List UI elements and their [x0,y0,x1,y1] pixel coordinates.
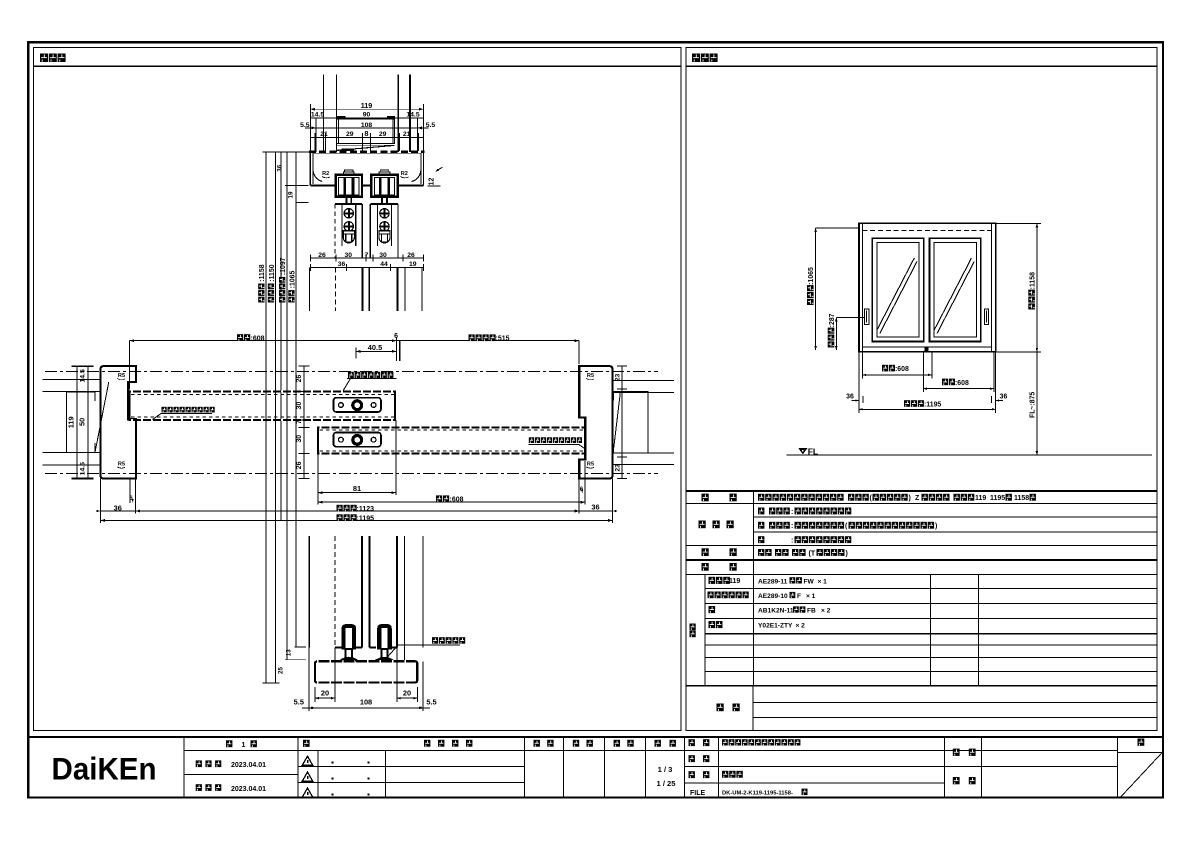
dim text 90 [363,112,371,119]
dim text 19 [409,261,417,268]
dim text 108 bottom [360,698,372,707]
svg-text::: : [791,509,793,516]
dim text 30 b [379,252,387,259]
rotated text 23 top [615,374,622,382]
DAIKEN logo [52,751,157,787]
label teiki tenken (underlined) [343,372,397,391]
dim wakugai-daka 1158 elev [996,223,1041,351]
svg-text:R5: R5 [118,373,125,379]
hanger roller right [371,170,397,203]
dim text 108 [361,122,373,129]
elev ext verticals [859,352,996,413]
guide pin label leader [387,645,460,658]
svg-text:5.5: 5.5 [426,698,436,707]
title FILE [690,790,705,797]
spec content katashiki [758,494,1036,502]
dim text 20 right [403,688,411,697]
dim 108 line [305,126,429,129]
left panel header line [34,65,682,67]
svg-text:1: 1 [242,742,246,749]
title warn triangle 2 [302,772,312,781]
height tick 1097 top [285,184,308,186]
rotated text 23 bottom [615,464,622,472]
svg-text:30: 30 [379,252,387,259]
dim text wakunai 1123 [337,505,375,513]
dim 90 line [310,117,423,119]
right jamb profile [579,366,612,478]
svg-text:FW: FW [804,578,815,585]
left jamb profile [101,366,136,478]
spec row line d [686,544,1157,546]
svg-text:36: 36 [591,503,599,512]
left dim mid ticks [83,380,94,465]
svg-text::608: :608 [955,380,969,387]
spec label buhin [702,563,737,571]
dim text 14.5 right [406,112,419,119]
svg-text:19: 19 [288,191,295,198]
dim 40.5 [356,337,396,361]
spec row line b [754,516,1157,518]
track bottom flange mid [362,181,371,186]
spec label hinban rot [690,624,696,638]
title dai-1-han [226,740,257,749]
svg-text:119: 119 [729,578,740,585]
svg-text:14.5: 14.5 [80,462,87,475]
svg-text:× 1: × 1 [806,593,816,600]
dim 20 right [397,697,417,699]
parts val hikite [758,623,805,630]
dim text 21 a [320,131,328,138]
track under line [337,144,395,146]
svg-text:8: 8 [364,129,368,138]
title zumei [689,771,710,778]
rotated text 30 d [296,435,303,443]
dim text 8 [364,129,368,138]
svg-text:F: F [797,593,801,600]
title kenzu [573,740,593,747]
svg-text:36: 36 [114,503,122,512]
dim hikite-daka 287 [835,317,865,350]
svg-text:14.5: 14.5 [311,112,324,119]
dim text 36 left [114,503,122,512]
bottom rail inner marks [342,659,391,661]
svg-text:2023.04.01: 2023.04.01 [231,762,266,769]
dim chain ticks [315,133,419,151]
right sash handle [984,309,988,325]
parts label koteiwaku [709,577,741,585]
svg-text:26: 26 [296,461,303,469]
svg-text:20: 20 [403,688,411,697]
svg-text:19: 19 [409,261,417,268]
wall centerline top [45,371,658,373]
svg-text:Z: Z [915,495,920,502]
dim text 81 [353,484,361,493]
title kaitei-bi [196,784,266,793]
title history dots 2 [332,778,370,780]
dim 608 left elev [862,374,932,376]
top door handle plate [333,398,381,412]
label shomenzu (front view) [692,54,718,63]
svg-text::1065: :1065 [289,271,296,289]
door top right [370,204,398,258]
right jamb R5 bottom [586,461,594,468]
spec label katashiki [702,494,737,502]
svg-text:14.5: 14.5 [406,112,419,119]
title No label [303,740,310,747]
svg-text::608: :608 [450,497,464,504]
title sakusei [614,740,634,747]
svg-text:26: 26 [296,375,303,383]
height top tick [263,151,310,153]
svg-text:36: 36 [846,394,854,401]
window bottom inner line [862,346,991,348]
svg-text:36: 36 [277,164,284,171]
dim text wakugai-haba 1195 elev [904,400,941,408]
svg-text:36: 36 [1000,394,1008,401]
label guide pin [432,637,465,644]
title history rows [298,767,525,783]
dim 20 left [315,697,335,699]
spec col biko divider [752,686,754,731]
dim 608 right elev [923,387,994,389]
spec row line f [686,574,1157,576]
wall stud line left a [323,75,325,152]
door bottom left [335,647,362,649]
svg-text:40.5: 40.5 [368,343,382,352]
dim text 5.5 bottom left [294,698,304,707]
dim text 36 right [591,503,599,512]
dim text 5.5 right [426,122,436,129]
wall stud line right b [409,75,411,152]
dim 108 bottom [302,707,430,710]
svg-text:7: 7 [365,252,369,259]
svg-text:(T: (T [809,550,816,557]
rotated text 14.5 top left [80,369,87,382]
FL line [786,454,1152,456]
spec content kanamono [758,549,848,557]
title kaitei rireki [424,740,472,747]
svg-text:× 2: × 2 [821,608,831,615]
spec col parts 1 [930,575,932,686]
title hinban [689,755,710,762]
rotated label wakugai-daka elev [1028,272,1036,310]
track bottom flange left [310,181,335,186]
svg-text:5.5: 5.5 [294,698,304,707]
dim text 26 b [407,252,415,259]
dim 119 line [310,104,423,152]
svg-text:7: 7 [296,420,303,424]
break diagonal [337,145,395,150]
svg-text:AB1K2N-11: AB1K2N-11 [758,608,794,615]
parts label rail set [708,592,749,599]
rotated text 26 c [296,375,303,383]
svg-text:AE289-10: AE289-10 [758,593,788,600]
svg-text:DaiKEn: DaiKEn [52,751,157,787]
right sash [930,238,981,341]
window top dashed track [862,229,991,231]
svg-text:44: 44 [380,261,388,268]
svg-text:36: 36 [338,261,346,268]
spec row line g [705,588,1157,590]
meeting stile marks [925,347,929,352]
rotated dim 19 top [288,191,295,198]
title warn triangle 1 [302,756,312,765]
title meisho [689,739,710,746]
dim chain 21-29-8-29-21 line [310,136,423,138]
svg-text:13: 13 [285,649,292,656]
left sash [872,238,923,341]
wall lines left [42,380,100,465]
dim text 14.5 left [311,112,324,119]
svg-text:12: 12 [429,178,436,186]
dim bar left [337,116,345,119]
title shonin [534,740,554,747]
title shukushaku [655,740,676,747]
rotated label wakunai-daka 1150 [268,264,276,302]
svg-text:): ) [935,523,937,530]
title page [1138,739,1145,746]
spec row line j [705,633,1157,635]
title warn triangle 3 [302,788,312,797]
svg-text:): ) [846,550,848,557]
dim text 36 t [338,261,346,268]
svg-text:23: 23 [615,374,622,382]
section break lines lower [309,536,423,661]
svg-text:FL: FL [808,446,819,456]
spec row line e thick [686,559,1157,561]
rotated text 119 left [67,416,76,428]
spec row line p [753,716,1157,718]
height ext line 1097 [286,152,288,660]
title page header line [1118,751,1163,753]
left jamb R5 bottom [117,461,125,468]
dim text wakugai 1195 [337,514,375,522]
dim FL 875 [1036,352,1039,455]
spec content glass [758,522,937,530]
title header line [184,750,1118,752]
height bottom tick 1158 [263,682,280,684]
dim shoji-daka 1065 [814,228,859,350]
svg-text:FB: FB [807,608,816,615]
svg-text::1195: :1195 [924,401,941,408]
dim text 44 [380,261,388,268]
dim chain 26-30-7-30-26 line [310,255,423,262]
svg-text:81: 81 [353,484,361,493]
track upper box [337,119,395,143]
height ext line 1150 [275,152,277,683]
parts label hikite [709,621,723,628]
dim text 26 a [318,252,326,259]
left panel border [34,48,682,731]
svg-text::1158: :1158 [259,264,266,281]
track right wall [421,152,423,186]
rotated text 30 c [296,402,303,410]
svg-text:119: 119 [361,101,373,110]
rotated text 26 d [296,461,303,469]
svg-text::1195: :1195 [357,516,375,523]
title zumei content [722,771,743,778]
svg-text:50: 50 [78,418,87,426]
title kenmei [953,749,976,756]
dim 1123 line [96,510,616,513]
dim 12 rotated [428,167,443,186]
dim text 36 right elev [996,394,1008,402]
top door plan [130,391,396,419]
bottom door handle plate [333,432,381,446]
spec row line i [705,618,1157,620]
C stud left diagonal [95,382,109,451]
spec row line l [705,657,1157,659]
rotated text 14.5 bottom left [80,462,87,475]
title scale 1/25 [657,779,677,788]
dim text 7 c [365,252,369,259]
dim bar right [387,116,395,119]
svg-text:21: 21 [403,131,411,138]
svg-text:30: 30 [345,252,353,259]
dim text 119 [361,101,373,110]
C stud right [614,391,649,453]
height ext line 1158 [265,152,267,683]
door top left [335,204,362,258]
height tick 1065 top [296,202,308,204]
hikite ref line [399,341,401,361]
spec content panel [758,508,851,516]
rotated label wakugai-daka 1158 [258,264,266,302]
svg-text::1123: :1123 [357,506,375,513]
dim text 5.5 bottom right [426,698,436,707]
rotated dim 25 bottom [278,667,285,674]
bottom door plan [318,427,585,453]
label hikido cap left [153,407,215,420]
plan ext verticals bottom [100,420,612,523]
break bar [342,149,355,152]
dim text yuko 515 [469,334,510,342]
title seitei-bi [196,760,266,769]
svg-text:FL~:875: FL~:875 [1030,392,1037,418]
svg-text::1150: :1150 [269,264,276,281]
dim tobira-haba 608 top [130,339,397,389]
spec row line o [753,702,1157,704]
svg-text:Y02E1-ZTY: Y02E1-ZTY [758,623,793,630]
dim text 608 right elev [942,379,969,387]
parts val tobira [758,606,831,614]
svg-text:119: 119 [67,416,76,428]
door bottom right [370,647,397,649]
svg-text:1 / 25: 1 / 25 [657,779,677,788]
svg-text:25: 25 [278,667,285,674]
spec label shiage [699,521,734,529]
track R2 label left [322,171,330,178]
title verticals [184,737,1118,798]
dim chain 36-44-19 line [310,264,423,271]
svg-text:× 1: × 1 [818,578,828,585]
svg-text::608: :608 [895,366,909,373]
title meisho content [722,739,800,745]
hanger roller left [336,170,362,203]
rail dim ext lines [309,648,423,712]
svg-text:30: 30 [296,435,303,443]
spec row line m [705,671,1157,673]
svg-text:26: 26 [407,252,415,259]
title history dots 3 [332,794,370,796]
dim text 30 a [345,252,353,259]
svg-text::608: :608 [251,335,265,342]
height bottom tick 1097 [285,659,306,661]
depth chain line [299,366,310,479]
spec col label divider [753,491,755,686]
rotated label osamari-daka 1097 [279,257,287,302]
wall centerline bottom [45,473,658,475]
track corner hook right [412,168,422,182]
svg-text:14.5: 14.5 [80,369,87,382]
guide pin left [341,625,356,660]
spec label biko [717,704,740,712]
track inner top [313,152,422,154]
parts label tobira [709,606,716,613]
svg-text:108: 108 [360,698,372,707]
svg-text:1 / 3: 1 / 3 [658,765,673,774]
right panel header line [686,65,1157,67]
title kenmei row [945,766,1118,768]
spec row line h [705,602,1157,604]
rotated label FL 875 [1030,392,1037,418]
title page diagonal [1120,753,1163,799]
svg-text:2023.04.01: 2023.04.01 [231,786,266,793]
spec content waku [758,536,851,544]
svg-text:20: 20 [321,688,329,697]
rotated label shoji-daka [807,267,815,305]
svg-text:): ) [909,495,911,502]
dim text 40.5 [368,343,382,352]
title name rows [685,767,945,783]
dim text 6 right bottom [580,486,584,493]
svg-text::1097: :1097 [280,257,287,275]
height bottom tick 1065 [295,646,307,648]
dim text 608 left elev [882,365,909,373]
svg-text::: : [791,523,793,530]
left sash handle [865,309,869,325]
svg-text:29: 29 [379,131,387,138]
dim text 21 b [403,131,411,138]
wall stud line left b [335,75,337,152]
svg-text::: : [791,538,793,545]
spec row line k [705,644,1157,646]
dim text tobira 608 top [237,334,265,342]
rotated dim 13 bottom [285,649,292,656]
dim 81 [318,491,396,494]
svg-text:FILE: FILE [690,790,705,797]
svg-text:29: 29 [346,131,354,138]
title date divider [184,773,298,775]
svg-text:DK-UM-2-K119-1195-1158-: DK-UM-2-K119-1195-1158- [722,790,793,796]
svg-text:AE289-11: AE289-11 [758,578,788,585]
dim 1195 elev [859,408,996,410]
svg-text::1158: :1158 [1030,272,1037,289]
dim text 29 a [346,131,354,138]
dim text 20 left [321,688,329,697]
FL symbol [799,446,818,456]
title history dots 1 [332,762,370,764]
label danmenzu (section view) [40,54,66,63]
rotated text 50 left [78,418,87,426]
title block top thick line [28,736,1163,738]
title file content [722,789,808,797]
spec label kanamono [702,548,737,556]
track left wall [310,152,313,186]
height ext line 1065 [295,152,297,647]
track R2 label right [401,171,409,178]
svg-text:R2: R2 [401,171,408,177]
